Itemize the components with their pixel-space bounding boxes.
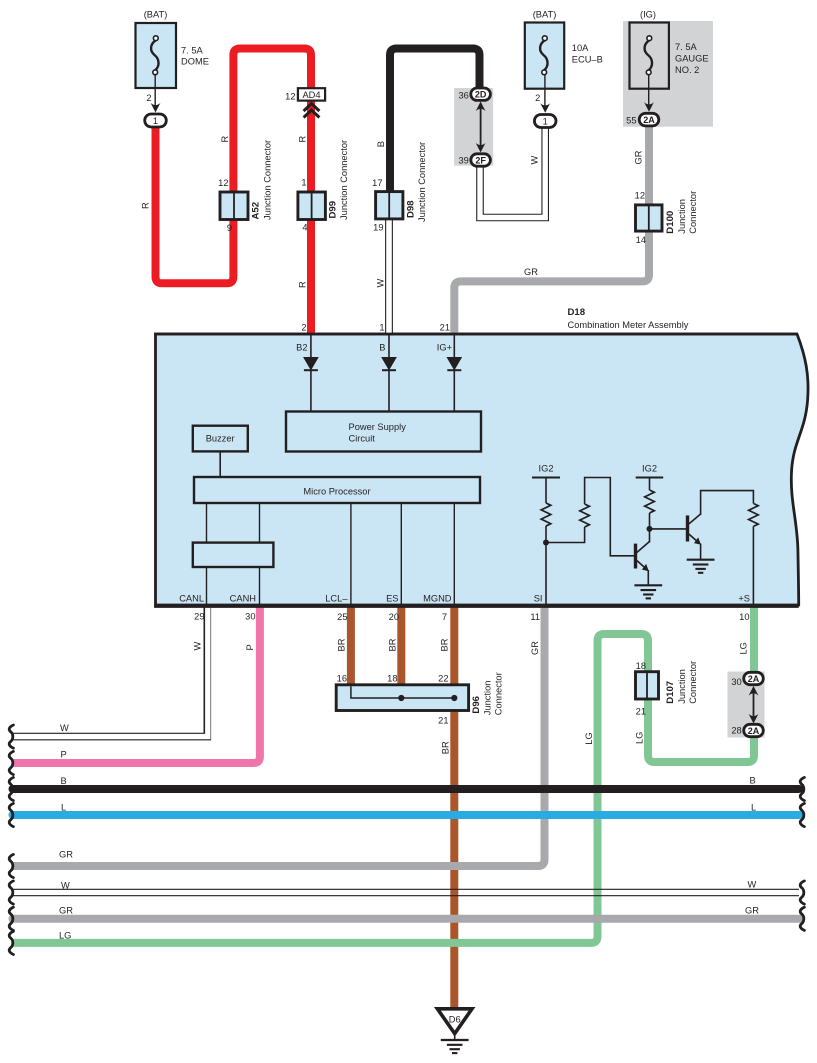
resistor R4 xyxy=(749,503,759,526)
svg-text:22: 22 xyxy=(438,674,448,684)
svg-text:Combination Meter Assembly: Combination Meter Assembly xyxy=(568,320,689,330)
svg-text:LG: LG xyxy=(584,732,594,744)
diode D-IG xyxy=(447,358,461,412)
svg-text:Buzzer: Buzzer xyxy=(206,434,235,444)
svg-text:GR: GR xyxy=(59,906,73,916)
wire R red: fuse DOME to A52 to AD4 to D99 to meter pin B2 xyxy=(156,49,312,336)
svg-text:A52: A52 xyxy=(251,202,262,220)
svg-text:GR: GR xyxy=(745,906,759,916)
double arrow 2D-2F xyxy=(476,102,486,153)
svg-text:Connector: Connector xyxy=(688,661,698,704)
squiggle W2 bus left xyxy=(9,881,13,904)
wire LG green: +S pin loop through D107 to LG bus xyxy=(13,605,755,943)
svg-text:2D: 2D xyxy=(475,90,487,100)
buzzer box xyxy=(193,426,248,452)
svg-text:D98: D98 xyxy=(406,200,417,218)
svg-text:LCL–: LCL– xyxy=(325,594,348,604)
junction connector D98 xyxy=(372,142,427,233)
squiggle W bus left xyxy=(9,725,13,748)
svg-text:28: 28 xyxy=(731,725,741,735)
wire W white: D98 pin 19 to meter pin B xyxy=(385,218,393,335)
micro processor box xyxy=(194,477,480,503)
wire MP to CAN box right xyxy=(259,503,261,543)
wire MP to LCL- pin xyxy=(350,503,352,606)
meter border redraw top xyxy=(154,333,797,336)
squiggle LG bus left xyxy=(9,931,13,954)
connector oval 1 (DOME) xyxy=(145,114,167,127)
svg-text:18: 18 xyxy=(387,674,397,684)
svg-text:55: 55 xyxy=(626,116,636,126)
svg-text:7. 5A: 7. 5A xyxy=(181,46,204,56)
svg-text:GR: GR xyxy=(634,150,644,164)
transistor Q1 xyxy=(636,542,650,586)
junction connector D99 xyxy=(298,140,349,233)
svg-text:Junction Connector: Junction Connector xyxy=(339,140,349,220)
wire BR brown: MGND pin through D96 to ground D6 xyxy=(450,605,458,1009)
wire B pin to diode xyxy=(388,335,390,358)
svg-text:MGND: MGND xyxy=(423,594,452,604)
svg-text:BR: BR xyxy=(388,638,398,651)
shade box 2A/2A xyxy=(728,672,765,738)
svg-text:(BAT): (BAT) xyxy=(144,10,168,20)
junction connector D100 xyxy=(635,191,698,246)
svg-text:2: 2 xyxy=(301,323,306,333)
svg-text:4: 4 xyxy=(302,223,307,233)
resistor R1 xyxy=(545,478,547,504)
node dot Q2 base xyxy=(647,526,653,532)
svg-text:Junction: Junction xyxy=(483,681,493,716)
svg-text:B: B xyxy=(379,343,385,353)
svg-text:9: 9 xyxy=(227,223,232,233)
svg-text:Connector: Connector xyxy=(494,672,504,715)
svg-text:LG: LG xyxy=(635,732,645,744)
svg-text:11: 11 xyxy=(530,612,540,622)
svg-text:D6: D6 xyxy=(449,1015,461,1025)
svg-text:Circuit: Circuit xyxy=(349,434,376,444)
svg-text:GR: GR xyxy=(59,850,73,860)
wire W white bus xyxy=(12,889,799,895)
wire B2 pin to diode xyxy=(310,335,312,358)
svg-text:29: 29 xyxy=(194,612,204,622)
svg-text:R: R xyxy=(298,136,308,143)
wire R2 top to Q1 base xyxy=(585,478,635,556)
svg-text:Junction: Junction xyxy=(677,199,687,234)
svg-text:25: 25 xyxy=(337,612,347,622)
wire B black bus xyxy=(13,785,800,793)
svg-text:17: 17 xyxy=(372,178,382,188)
svg-text:NO. 2: NO. 2 xyxy=(675,65,699,75)
svg-text:30: 30 xyxy=(245,612,255,622)
wire MP to MGND pin xyxy=(453,503,455,606)
junction connector D96 xyxy=(336,672,503,725)
squiggle B bus right xyxy=(800,777,804,800)
svg-text:1: 1 xyxy=(153,116,158,126)
svg-text:W: W xyxy=(61,881,70,891)
svg-text:2A: 2A xyxy=(748,674,760,684)
CAN driver box xyxy=(193,543,274,567)
diode D-B xyxy=(382,358,396,412)
wire BR brown: LCL- pin to D96 xyxy=(347,605,355,692)
svg-text:W: W xyxy=(193,642,203,651)
wire IG+ pin to diode xyxy=(453,335,455,358)
svg-text:+S: +S xyxy=(738,594,750,604)
svg-text:GR: GR xyxy=(524,267,538,277)
svg-text:B: B xyxy=(61,776,67,786)
svg-text:10: 10 xyxy=(739,612,749,622)
svg-text:1: 1 xyxy=(543,117,548,127)
fuse F1 7.5A DOME xyxy=(136,10,209,113)
svg-text:D99: D99 xyxy=(328,201,339,219)
svg-text:1: 1 xyxy=(301,178,306,188)
svg-text:Junction Connector: Junction Connector xyxy=(263,140,273,220)
combination meter assembly D18 box xyxy=(156,334,809,605)
junction connector A52 xyxy=(218,140,272,233)
svg-text:12: 12 xyxy=(285,92,295,102)
svg-text:L: L xyxy=(61,803,66,813)
squiggle B bus left xyxy=(9,777,13,800)
svg-text:12: 12 xyxy=(218,178,228,188)
svg-text:BR: BR xyxy=(440,638,450,651)
connector oval 2A (IG) xyxy=(639,113,659,126)
svg-text:2: 2 xyxy=(535,93,540,103)
ground Q1 xyxy=(634,585,662,598)
squiggle L bus left xyxy=(9,803,13,826)
svg-text:LG: LG xyxy=(739,642,749,654)
svg-text:30: 30 xyxy=(731,677,741,687)
squiggle GR bus left xyxy=(9,854,13,877)
svg-text:R: R xyxy=(141,202,151,209)
svg-text:IG+: IG+ xyxy=(437,343,452,353)
svg-text:14: 14 xyxy=(636,235,646,245)
power supply circuit box xyxy=(286,412,481,452)
wire buzzer to micro processor xyxy=(219,451,221,477)
transistor Q2 xyxy=(688,514,702,560)
svg-text:P: P xyxy=(245,644,255,650)
svg-text:39: 39 xyxy=(458,156,468,166)
svg-text:BR: BR xyxy=(441,741,451,754)
svg-text:IG2: IG2 xyxy=(642,464,657,474)
svg-text:Junction Connector: Junction Connector xyxy=(417,142,427,222)
svg-text:18: 18 xyxy=(636,661,646,671)
wire W white: CANL pin to W bus xyxy=(12,605,208,736)
svg-text:(IG): (IG) xyxy=(640,10,656,20)
diode D-B2 xyxy=(304,358,318,412)
fuse F3 7.5A GAUGE NO.2 xyxy=(626,10,708,126)
svg-text:7: 7 xyxy=(442,612,447,622)
wire GR gray: SI pin to GR bus xyxy=(13,605,545,866)
svg-text:19: 19 xyxy=(373,223,383,233)
resistor R2 xyxy=(580,504,590,527)
svg-text:D96: D96 xyxy=(471,696,482,714)
svg-text:1: 1 xyxy=(379,323,384,333)
svg-text:R: R xyxy=(220,136,230,143)
wire dot to resistor R2 xyxy=(546,527,585,543)
double arrow 2A-2A xyxy=(749,686,759,724)
meter border redraw bottom xyxy=(154,605,799,608)
chevron AD4 xyxy=(304,104,320,118)
resistor R3 xyxy=(649,478,651,491)
svg-text:10A: 10A xyxy=(572,43,589,53)
squiggle GR2 bus right xyxy=(800,907,804,930)
wire GR gray bus lower xyxy=(13,915,800,923)
svg-text:21: 21 xyxy=(440,323,450,333)
wire CAN box to CANL pin xyxy=(206,567,208,606)
wire P pink: CANH pin to P bus xyxy=(13,605,260,763)
svg-text:AD4: AD4 xyxy=(302,90,320,100)
svg-text:DOME: DOME xyxy=(181,57,209,67)
squiggle W2 bus right xyxy=(800,881,804,904)
svg-text:2F: 2F xyxy=(475,156,486,166)
svg-text:B2: B2 xyxy=(296,343,307,353)
svg-text:B: B xyxy=(750,776,756,786)
svg-text:2A: 2A xyxy=(748,726,760,736)
svg-text:IG2: IG2 xyxy=(539,464,554,474)
svg-text:BR: BR xyxy=(337,638,347,651)
wire L blue bus xyxy=(13,811,800,819)
wire CAN box to CANH pin xyxy=(259,567,261,606)
svg-text:12: 12 xyxy=(635,191,645,201)
svg-text:D18: D18 xyxy=(568,307,586,318)
svg-text:(BAT): (BAT) xyxy=(533,10,557,20)
IG shade box xyxy=(623,21,713,127)
svg-text:20: 20 xyxy=(389,612,399,622)
svg-text:CANH: CANH xyxy=(230,594,256,604)
fuse F2 10A ECU-B xyxy=(525,10,603,113)
svg-text:7. 5A: 7. 5A xyxy=(675,42,698,52)
svg-text:W: W xyxy=(530,156,540,165)
svg-text:CANL: CANL xyxy=(179,594,204,604)
svg-text:W: W xyxy=(376,279,386,288)
wire B black: 2D oval to D98 xyxy=(390,49,480,201)
svg-text:LG: LG xyxy=(59,931,71,941)
svg-text:W: W xyxy=(60,723,69,733)
svg-text:GR: GR xyxy=(530,641,540,655)
svg-text:ES: ES xyxy=(386,594,398,604)
svg-text:R: R xyxy=(298,281,308,288)
svg-text:36: 36 xyxy=(458,90,468,100)
svg-text:Junction: Junction xyxy=(677,669,687,704)
svg-text:21: 21 xyxy=(438,716,448,726)
svg-text:GAUGE: GAUGE xyxy=(675,54,709,64)
wire Q1 collector to node xyxy=(649,529,651,543)
wire BR brown: ES pin to D96 xyxy=(397,605,405,692)
wire W white: ECU-B oval 1 to 2F oval xyxy=(480,126,545,218)
svg-text:Power Supply: Power Supply xyxy=(349,422,407,432)
wire MP to ES pin xyxy=(400,503,402,606)
squiggle L bus right xyxy=(800,803,804,826)
svg-text:16: 16 xyxy=(337,674,347,684)
svg-text:W: W xyxy=(748,880,757,890)
wire Q2 collector to resistor R4 xyxy=(701,491,754,515)
wire MP to CAN box left xyxy=(206,503,208,543)
svg-text:2: 2 xyxy=(146,93,151,103)
svg-text:ECU–B: ECU–B xyxy=(572,55,603,65)
wire GR gray: IG fuse 2A to D100 to meter pin IG+ xyxy=(454,125,649,335)
svg-text:L: L xyxy=(751,803,756,813)
wire node to Q2 base xyxy=(650,528,687,530)
connector oval 1 (ECU-B) xyxy=(534,115,556,128)
shade box 2D/2F xyxy=(454,88,493,166)
svg-text:Micro Processor: Micro Processor xyxy=(303,487,370,497)
ground Q2 xyxy=(687,560,715,573)
ground D6 xyxy=(437,1009,472,1053)
svg-text:D100: D100 xyxy=(665,211,676,234)
svg-text:P: P xyxy=(61,750,67,760)
svg-text:B: B xyxy=(376,141,386,147)
svg-text:2A: 2A xyxy=(643,115,655,125)
svg-text:Connector: Connector xyxy=(688,191,698,234)
squiggle P bus left xyxy=(9,751,13,774)
svg-text:SI: SI xyxy=(534,594,543,604)
squiggle GR2 bus left xyxy=(9,907,13,930)
node dot SI xyxy=(543,540,549,546)
junction connector D107 xyxy=(636,661,699,717)
svg-text:D107: D107 xyxy=(665,681,676,704)
svg-text:21: 21 xyxy=(636,707,646,717)
